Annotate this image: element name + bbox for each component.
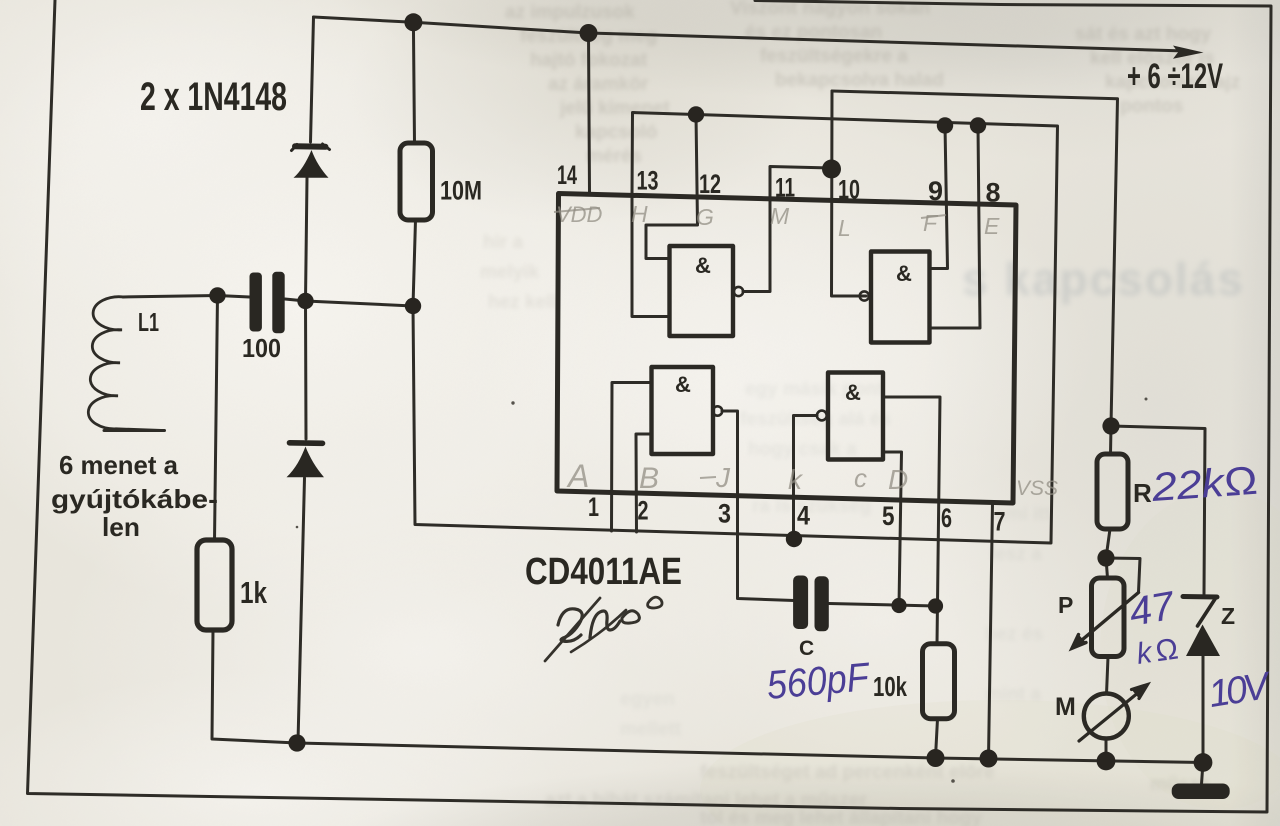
node supply/pin14 [580, 24, 598, 42]
wire pin10 vertical through to gate U1B output [832, 91, 867, 296]
wire pin13 internal to gate U1A lower input [632, 196, 670, 317]
resistor 10k body [923, 644, 955, 719]
wire D1 anode to cap row [306, 178, 308, 301]
potentiometer P body [1092, 578, 1125, 657]
svg-text:11: 11 [775, 173, 795, 203]
svg-text:&: & [695, 253, 711, 278]
node bottom rail/1k/D2 [288, 734, 305, 751]
wire junction down to 1k top [215, 296, 218, 542]
svg-text:C: C [799, 637, 814, 660]
svg-text:J: J [715, 462, 731, 493]
wire supply branch across to right rail down to R [832, 91, 1118, 426]
wire R top node to R body [1109, 426, 1113, 454]
svg-text:tól és meg lehet állapítani ho: tól és meg lehet állapítani hogy [700, 808, 982, 826]
inductor L1 pickup coil [88, 297, 164, 431]
svg-text:10: 10 [838, 175, 860, 205]
node pin5/cap C [891, 598, 906, 613]
svg-text:hir a: hir a [483, 232, 524, 253]
svg-text:lesz a: lesz a [990, 544, 1042, 565]
capacitor C right plate [815, 576, 829, 631]
node bottom rail/meter [1097, 752, 1116, 771]
svg-text:feszültséget ad percenként elő: feszültséget ad percenként előre [700, 762, 995, 783]
wire pin1 to gate U1C upper input [612, 383, 652, 532]
svg-text:hogy csak a: hogy csak a [748, 439, 857, 460]
svg-text:CD4011AE: CD4011AE [525, 551, 682, 593]
svg-text:10k: 10k [873, 671, 907, 702]
node pin4/bus [786, 531, 802, 547]
svg-text:1: 1 [588, 492, 599, 522]
svg-text:mint a: mint a [985, 684, 1041, 705]
svg-text:s kapcsolás: s kapcsolás [962, 253, 1245, 305]
svg-text:2: 2 [638, 496, 649, 526]
gate U1A output bubble [734, 287, 743, 296]
capacitor 100 left plate [250, 273, 262, 332]
supply arrowhead [1173, 46, 1204, 59]
svg-text:kapcsoló: kapcsoló [575, 122, 657, 143]
svg-text:100: 100 [242, 333, 281, 363]
wire meter bottom to ground rail [1105, 739, 1108, 762]
gate U1B output bubble [860, 291, 869, 300]
diode D2 1N4148 (bar + triangle) [287, 447, 325, 478]
tiny paper specks [296, 398, 1148, 783]
wire gate U1A output to pin 11 and node dot [743, 167, 832, 292]
node R/P wiper [1097, 549, 1114, 566]
node cap C/10k [928, 598, 943, 613]
svg-text:7: 7 [994, 507, 1006, 537]
diode D1 1N4148 (bar + triangle) [294, 150, 329, 178]
resistor R body [1097, 454, 1128, 529]
wire 10k bottom to ground rail [936, 719, 938, 757]
capacitor 100 right plate [272, 272, 284, 334]
wire D2 anode down to bottom rail [298, 478, 305, 742]
svg-text:560pF: 560pF [765, 655, 873, 708]
ground symbol [1172, 784, 1230, 800]
svg-text:c: c [854, 463, 867, 493]
svg-text:8: 8 [986, 178, 1001, 208]
svg-text:k: k [788, 464, 804, 495]
resistor 10M body [400, 143, 433, 220]
dark pen scribble near CD4011AE [545, 597, 662, 661]
svg-text:az áramkör: az áramkör [548, 74, 649, 95]
wire 10M bottom to cap row [413, 220, 416, 306]
gate U1C (pins 1,2 -> 3) [652, 367, 714, 454]
svg-text:kΩ: kΩ [1134, 632, 1180, 671]
wire zener to ground rail [1202, 656, 1205, 763]
gate U1A (pins 13,12 -> 11) [670, 246, 734, 336]
node cap100/diodes [297, 293, 313, 309]
wire cap row to D2 cathode [304, 301, 308, 439]
potentiometer P wiper arrow [1072, 593, 1139, 649]
svg-text:feszültség alá és: feszültség alá és [740, 409, 891, 430]
svg-text:VSS: VSS [1016, 477, 1058, 500]
faint show-through text from reverse page [505, 0, 1240, 167]
wire P node down to pot body [1106, 558, 1108, 578]
capacitor C left plate [793, 576, 808, 630]
svg-text:R: R [1133, 478, 1152, 508]
zener diode Z triangle [1186, 625, 1220, 657]
wire gate U1C output to pin3 and cap C [722, 411, 794, 601]
svg-text:A: A [566, 458, 589, 494]
node bottom rail/10k [927, 749, 945, 767]
node bottom rail/pin7 [980, 750, 998, 768]
node pin12/feedback [688, 106, 704, 122]
gate U1B (pins 9,8 -> 10) mirrored [871, 252, 930, 343]
pencil strikethroughs [554, 208, 946, 478]
svg-text:&: & [896, 261, 912, 286]
svg-text:6: 6 [941, 503, 952, 533]
svg-text:F: F [923, 210, 939, 236]
svg-text:E: E [984, 213, 1000, 239]
wire pin8 to gate U1B lower input [931, 126, 980, 329]
svg-text:VDD: VDD [556, 202, 603, 227]
zener diode Z cathode bar [1183, 597, 1217, 627]
svg-text:14: 14 [557, 160, 577, 190]
gate U1D output bubble [817, 411, 827, 421]
svg-text:6 menet a: 6 menet a [59, 450, 179, 480]
wire pin 14 to supply rail [589, 33, 590, 192]
wire supply corner down to D1 [311, 17, 314, 142]
node pin9/feedback [937, 117, 953, 133]
svg-text:L1: L1 [138, 307, 159, 337]
svg-text:feszültségekre a: feszültségekre a [760, 46, 908, 67]
resistor 1k body [197, 540, 232, 630]
svg-text:&: & [675, 372, 691, 397]
node right rail/R/zener [1102, 417, 1119, 434]
svg-text:G: G [696, 204, 714, 230]
wire pin2 to gate U1C lower input [636, 434, 652, 532]
svg-text:&: & [845, 380, 861, 405]
pin numbers [557, 160, 1006, 537]
wire R bottom to P node [1106, 529, 1110, 558]
svg-text:12: 12 [699, 169, 721, 199]
svg-text:5: 5 [882, 501, 895, 531]
wire gate U1D output to pin 4 node [794, 416, 818, 540]
svg-text:P: P [1058, 592, 1073, 618]
svg-text:H: H [631, 201, 648, 227]
gate U1D (pins 6,5 -> 4) mirrored [828, 373, 883, 460]
IC U1 CD4011AE package outline [557, 194, 1016, 504]
svg-text:gyújtókábe-: gyújtókábe- [51, 484, 218, 514]
svg-text:pontos: pontos [1120, 96, 1183, 117]
wire R node across to zener Z [1111, 426, 1205, 594]
svg-text:10M: 10M [440, 176, 482, 206]
gate & symbols [675, 253, 912, 405]
wire pin12 jog to gate U1A upper input [646, 115, 698, 259]
svg-text:len: len [102, 512, 140, 542]
wire 1k bottom to bottom rail [212, 630, 297, 743]
svg-text:13: 13 [637, 166, 659, 196]
printed labels [51, 57, 1235, 721]
wire supply dot down to 10M top [413, 22, 414, 143]
node supply/10M [404, 13, 422, 31]
svg-text:Z: Z [1221, 603, 1235, 629]
gate U1C output bubble [713, 406, 722, 415]
wire P node to wiper jog [1106, 558, 1140, 592]
node L1/cap100/1k [209, 287, 225, 303]
svg-text:hez és: hez és [985, 624, 1043, 645]
svg-text:D: D [888, 464, 908, 495]
wire top supply rail [314, 17, 1178, 51]
node cap row/10M [405, 298, 421, 314]
ground stub [1202, 763, 1204, 785]
svg-text:3: 3 [718, 499, 731, 529]
wire cap C right plate to 10k line [829, 604, 936, 607]
wire gate U1D upper input to pin6 and 10k top [883, 397, 940, 644]
wire cap 100 right plate to junction [285, 299, 413, 306]
wire bottom ground rail [297, 743, 1203, 763]
wire feedback net: pin13 up, across top, down right side, long lower bus [413, 113, 1058, 544]
svg-text:hez kell: hez kell [488, 292, 557, 313]
wire L1 to cap row junction [123, 296, 250, 298]
svg-text:mellett: mellett [620, 719, 682, 740]
svg-text:+ 6 ÷12V: + 6 ÷12V [1127, 57, 1223, 96]
svg-text:az impulzusok: az impulzusok [505, 2, 635, 23]
handwritten ink annotations (ballpoint) [765, 459, 1275, 716]
pencil annotations on IC pins [556, 201, 1058, 500]
meter M needle arrow [1079, 685, 1148, 742]
wire pot bottom to meter M [1107, 657, 1109, 694]
svg-text:M: M [770, 203, 790, 229]
svg-text:4: 4 [797, 501, 810, 531]
svg-text:sát és azt hogy: sát és azt hogy [1075, 24, 1212, 45]
node pin10/pin11 branch [822, 160, 841, 179]
svg-text:9: 9 [928, 176, 943, 206]
svg-text:melyik: melyik [480, 262, 540, 283]
wire L1 bottom lead [104, 429, 165, 432]
svg-text:2 x 1N4148: 2 x 1N4148 [140, 75, 287, 119]
meter M circle [1084, 694, 1129, 739]
node pin8/feedback [970, 117, 986, 133]
wire pin9 to gate U1B upper input [930, 126, 948, 269]
svg-text:1k: 1k [240, 575, 268, 610]
svg-text:22kΩ: 22kΩ [1149, 459, 1259, 510]
svg-text:M: M [1055, 693, 1076, 721]
svg-text:egy másik pont: egy másik pont [745, 379, 884, 400]
svg-text:L: L [838, 215, 851, 241]
svg-text:bekapcsolva halad: bekapcsolva halad [775, 70, 944, 91]
wire gate U1D lower input to pin5 and cap C node [883, 452, 902, 606]
wire pin7 down to ground rail [989, 504, 993, 758]
node bottom rail/zener/ground [1194, 753, 1213, 772]
svg-text:jelű kimenet: jelű kimenet [559, 98, 670, 119]
svg-text:egyen: egyen [620, 689, 675, 710]
svg-text:B: B [639, 462, 659, 495]
